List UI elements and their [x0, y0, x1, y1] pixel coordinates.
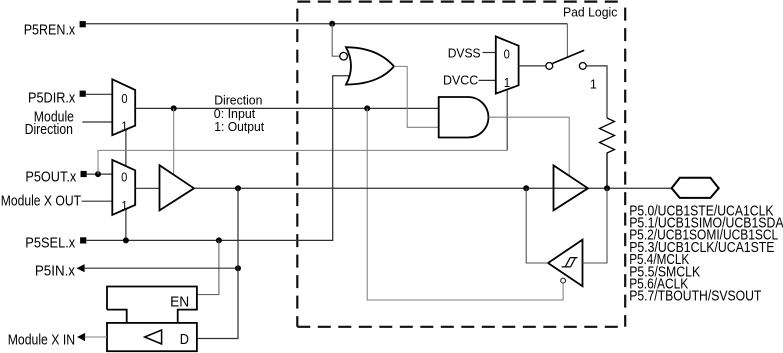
terminal square P5DIR [80, 91, 86, 97]
svg-text:P5IN.x: P5IN.x [35, 264, 76, 280]
wire P5SEL horizontal then up to OR input 2 [86, 76, 350, 241]
wire Module X IN from D box [85, 336, 108, 338]
Pad Logic dashed box [297, 1, 625, 3]
junction main line to P5IN / latch [235, 185, 241, 191]
svg-text:P5SEL.x: P5SEL.x [25, 235, 76, 251]
pad hexagon [672, 178, 719, 198]
wire Module Direction to mux M1 input 1 [82, 121, 112, 123]
svg-text:1: 1 [504, 75, 510, 90]
terminal square P5OUT [81, 171, 87, 177]
svg-text:EN: EN [170, 295, 189, 311]
wire DVCC to mux M3 input 1 [479, 79, 496, 81]
junction P5SEL to mux M2 select [123, 237, 129, 243]
switch lever [553, 50, 585, 63]
svg-text:Direction: Direction [25, 122, 73, 138]
wire mux M2 select from P5SEL [125, 209, 127, 240]
svg-text:1: 1 [121, 198, 127, 213]
svg-text:P5REN.x: P5REN.x [24, 22, 76, 38]
switch contact right [579, 63, 586, 70]
terminal square P5REN [80, 21, 86, 27]
wire Direction to schmitt enable (down, right, up to bubble) [367, 108, 563, 300]
wire P5REN horizontal [86, 23, 568, 25]
junction main line to schmitt tip [523, 185, 529, 191]
svg-text:DVCC: DVCC [443, 73, 478, 88]
latch D box [107, 323, 197, 351]
svg-text:Pad Logic: Pad Logic [563, 4, 618, 19]
switch contact left [546, 63, 553, 70]
wire latch vertical (main line to D input) [197, 188, 238, 338]
wire P5IN line [84, 267, 238, 269]
wire Module X OUT to mux M2 input 1 [82, 200, 113, 202]
svg-text:Direction: Direction [214, 94, 262, 108]
buffer B2 (pad driver) [554, 165, 589, 210]
arrow P5IN [77, 264, 85, 272]
svg-text:DVSS: DVSS [448, 46, 481, 61]
svg-text:P5OUT.x: P5OUT.x [25, 169, 76, 185]
svg-text:0: Input: 0: Input [214, 107, 256, 121]
buffer B1 (output driver, core side) [160, 165, 195, 210]
wire mux M2 output to buffer B1 [135, 187, 159, 189]
junction P5IN with latch vertical [235, 265, 241, 271]
latch EN box [107, 287, 197, 323]
wire DVSS to mux M3 input 0 [483, 52, 496, 54]
svg-text:Module X OUT: Module X OUT [1, 193, 82, 209]
schmitt trigger input buffer [548, 240, 583, 287]
svg-text:1: Output: 1: Output [214, 120, 264, 134]
terminal square P5SEL [80, 237, 86, 243]
svg-text:P5.7/TBOUTH/SVSOUT: P5.7/TBOUTH/SVSOUT [629, 289, 761, 305]
mux M2 output-select [112, 160, 135, 215]
wire P5REN to switch control [566, 24, 568, 58]
OR gate input bubble [340, 52, 348, 60]
wire AND output to buffer B2 enable [489, 117, 570, 176]
latch triangle symbol [145, 330, 162, 344]
mux M3 DVSS/DVCC select [496, 37, 519, 94]
wire P5OUT to mux M2 input 0 [87, 173, 113, 175]
wire pad node to schmitt input [583, 188, 608, 263]
wire P5SEL to EN box [197, 240, 219, 294]
svg-text:D: D [180, 332, 189, 348]
wire OR output to AND input 2 [394, 66, 439, 127]
svg-text:P5DIR.x: P5DIR.x [28, 91, 76, 107]
OR gate (pullup/pulldown enable) [346, 47, 394, 84]
wire P5DIR to mux M1 input 0 [86, 93, 113, 95]
svg-text:0: 0 [504, 46, 510, 61]
svg-text:Module X IN: Module X IN [8, 333, 75, 349]
wire P5REN to OR bubble input [332, 24, 340, 56]
arrow Module X IN [77, 333, 85, 341]
schmitt enable bubble [561, 278, 566, 283]
svg-text:1: 1 [121, 119, 127, 134]
wire mux M3 output to switch [519, 65, 546, 67]
wire mux M1 select from P5SEL [125, 130, 127, 166]
mux M1 direction-select [112, 79, 135, 135]
wire Direction (mux M1 output to AND gate) [135, 107, 439, 109]
svg-text:1: 1 [590, 78, 597, 92]
svg-text:0: 0 [121, 170, 127, 185]
junction Direction to input schmitt enable [364, 105, 370, 111]
wire P5OUT feedback to DVSS/DVCC mux select [98, 150, 507, 174]
junction P5SEL to EN latch [216, 237, 222, 243]
wire Direction to buffer B1 enable [173, 108, 175, 174]
schmitt hysteresis symbol [562, 258, 578, 267]
junction Direction to output buffer enable [171, 105, 177, 111]
wire schmitt tip to main line [526, 188, 548, 263]
AND gate (driver enable) [439, 97, 489, 138]
svg-text:0: 0 [121, 91, 127, 106]
junction main line pad node [604, 185, 610, 191]
resistor pullup/pulldown [600, 118, 615, 188]
junction P5REN branch [329, 21, 335, 27]
junction P5OUT feedback [95, 171, 101, 177]
wire switch to resistor [586, 66, 607, 118]
wire mux M3 select vertical [506, 90, 508, 151]
wire main output line (buffer B1 to pad) [194, 187, 672, 189]
